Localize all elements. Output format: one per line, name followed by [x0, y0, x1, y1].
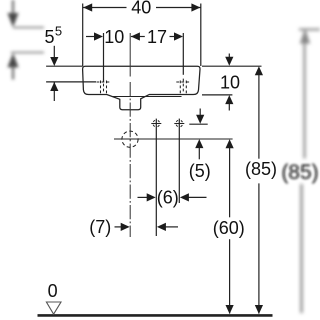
svg-text:(85): (85) [281, 161, 318, 184]
svg-text:0: 0 [48, 281, 58, 301]
svg-text:10: 10 [220, 72, 240, 92]
svg-text:(85): (85) [245, 159, 277, 179]
svg-text:5: 5 [44, 27, 54, 47]
svg-text:(6): (6) [157, 187, 179, 207]
svg-text:17: 17 [147, 27, 167, 47]
svg-text:(7): (7) [89, 217, 111, 237]
svg-text:(5): (5) [189, 161, 211, 181]
svg-text:(60): (60) [213, 218, 245, 238]
svg-text:10: 10 [104, 27, 124, 47]
svg-text:5: 5 [55, 24, 62, 39]
svg-text:40: 40 [131, 0, 151, 18]
